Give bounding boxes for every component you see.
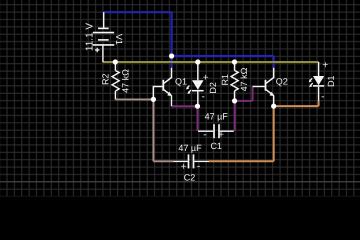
svg-text:V1: V1 <box>114 34 124 45</box>
svg-text:-: - <box>202 92 205 103</box>
resistor R2 <box>112 62 119 99</box>
wire blue node to Q1 collector <box>171 56 173 68</box>
label C2 value <box>178 143 202 153</box>
svg-text:D2: D2 <box>208 82 218 94</box>
node rail D2 <box>195 59 200 64</box>
svg-text:+: + <box>218 129 224 140</box>
transistor Q2 <box>253 68 275 106</box>
svg-text:47 kΩ: 47 kΩ <box>120 69 130 93</box>
battery V1 <box>93 12 115 62</box>
label C2 minus <box>197 161 200 172</box>
svg-text:R2: R2 <box>100 73 110 85</box>
wire tan R2 bottom to Q1 base node <box>115 98 153 100</box>
label Q2 <box>276 76 288 86</box>
capacitor C1 <box>198 124 234 138</box>
svg-text:C2: C2 <box>184 173 196 183</box>
label 47 kOhm R1 <box>239 67 249 91</box>
svg-text:+: + <box>181 162 187 173</box>
label D1 minus <box>321 92 324 103</box>
label C2 plus <box>181 162 187 173</box>
node battery-neg junction <box>169 53 174 58</box>
label R1 <box>220 74 230 86</box>
wire purple D2 node down to C1 left lead <box>197 106 199 131</box>
resistor R1 <box>231 62 238 101</box>
label Q1 <box>175 76 187 86</box>
wire tan down from Q1 base node <box>152 99 154 161</box>
transistor Q1 <box>153 68 172 106</box>
svg-text:-: - <box>203 130 206 141</box>
svg-text:-: - <box>197 161 200 172</box>
label V1 <box>114 34 124 45</box>
label D2 <box>208 82 218 94</box>
node rail R2 <box>113 59 118 64</box>
svg-text:C1: C1 <box>210 141 222 151</box>
svg-text:-: - <box>321 92 324 103</box>
svg-text:Q1: Q1 <box>175 76 187 86</box>
node Q2 emitter <box>271 104 276 109</box>
svg-text:D1: D1 <box>326 75 336 87</box>
label 11.1 V <box>85 23 96 51</box>
label D1 <box>326 75 336 87</box>
wire orange bottom to C2 right lead <box>209 160 274 162</box>
label D1 plus <box>322 60 328 71</box>
node Q1 base <box>151 97 156 102</box>
wire yellow positive rail <box>103 61 319 63</box>
svg-text:R1: R1 <box>220 74 230 86</box>
wire blue down to Q2 collector <box>273 56 275 68</box>
brighter grid line <box>0 181 360 183</box>
LED D2 <box>186 62 204 106</box>
label C1 <box>210 141 222 151</box>
svg-text:Q2: Q2 <box>276 76 288 86</box>
LED D1 <box>309 62 325 101</box>
node R1 bottom <box>232 98 237 103</box>
wire blue vertical down to node <box>171 12 173 57</box>
wire purple Q1 emitter to D2 node <box>172 105 198 107</box>
wire purple up to Q2 base <box>252 87 254 101</box>
label 47 kOhm R2 <box>120 69 130 93</box>
svg-text:47 µF: 47 µF <box>205 111 229 121</box>
label C1 plus <box>218 129 224 140</box>
wire orange Q2 emitter node to D1 bottom <box>274 105 319 107</box>
svg-text:+: + <box>322 60 328 71</box>
node D2 cathode <box>195 104 200 109</box>
label C1 minus <box>203 130 206 141</box>
wire orange up to D1 cathode <box>318 101 320 107</box>
wire purple R1 node down to C1 right lead <box>234 101 236 131</box>
wire purple R1 node to Q2 base corner <box>235 100 253 102</box>
label D2 plus <box>203 73 209 84</box>
label D2 minus <box>202 92 205 103</box>
label R2 <box>100 73 110 85</box>
label C1 value <box>205 111 229 121</box>
node rail R1 <box>232 59 237 64</box>
svg-text:47 µF: 47 µF <box>178 143 202 153</box>
svg-text:11.1 V: 11.1 V <box>85 23 96 51</box>
wire blue horizontal to Q2 side <box>172 55 274 57</box>
svg-text:+: + <box>203 73 209 84</box>
label C2 <box>184 173 196 183</box>
wire blue battery-top to corner <box>103 11 172 13</box>
wire orange Q2 emitter node down <box>273 106 275 161</box>
wire tan to C2 left lead <box>153 160 173 162</box>
svg-text:47 kΩ: 47 kΩ <box>239 67 249 91</box>
capacitor C2 <box>173 154 209 168</box>
